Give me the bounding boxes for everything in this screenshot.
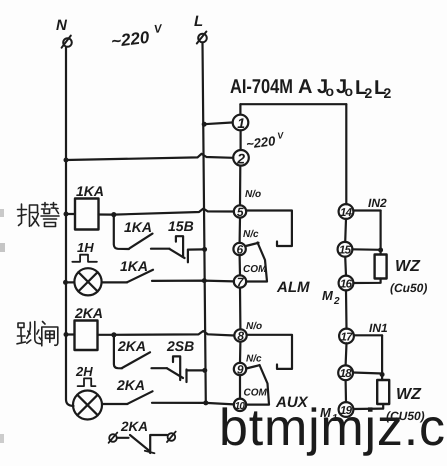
svg-text:N/c: N/c [243,229,259,240]
resistor WZ2 [377,380,389,404]
node N label [56,17,68,34]
wire coil1 to terminal 5 (hops L bus) [99,209,234,215]
lamp 2H pulse glyph [78,378,96,386]
wire L bus [203,43,206,403]
svg-text:15B: 15B [168,218,194,234]
wire N bus [66,48,74,407]
wire 18-19 [345,380,348,402]
wire 17 right [354,334,382,336]
terminal 19 [339,402,354,417]
wire 15 right [352,248,380,251]
terminal 15 [338,242,353,257]
label COM (10) [244,388,268,399]
junction dot lamp1 row at L bus [202,278,207,283]
wire 14 right [353,209,380,211]
floating contact blade [130,435,150,451]
label 2H [75,364,93,379]
pushbutton 2SB blade [167,368,183,378]
AUX NC tick from 9 [246,365,259,368]
label ALM [276,279,310,296]
svg-text:2H: 2H [75,364,93,379]
svg-text:N/o: N/o [245,189,261,200]
svg-text:1KA: 1KA [76,183,104,199]
svg-text:16: 16 [340,278,353,290]
wire contact to L bus and terminal 7 [152,280,234,283]
label IN2 [368,196,387,210]
svg-text:A: A [298,76,312,98]
label N/C (9) [246,354,262,365]
terminal 2 [233,150,249,166]
terminal 10 [234,399,246,411]
contact 2KA blade (lamp row) [128,391,153,404]
svg-text:WZ: WZ [395,258,421,275]
junction dot lamp2 row at L bus [203,400,208,405]
contact 1KA blade (lamp row) [127,270,153,283]
terminal 1 [233,115,249,131]
label 2KA coil [74,305,103,321]
junction dot seal-in branch 2 [111,332,116,337]
label WZ 1 [395,258,421,275]
svg-text:1KA: 1KA [124,219,152,235]
svg-text:1: 1 [237,115,245,131]
label 15B [168,218,194,234]
wire 14-15 [344,219,347,242]
resistor WZ1 [375,255,387,279]
label 报警 (alarm) [18,203,60,227]
junction dot N bus coil1 [64,212,69,217]
terminal 16 [339,276,354,291]
wire 1-2 [240,130,242,149]
svg-text:o: o [326,83,335,99]
svg-text:2: 2 [236,150,245,166]
node L label [194,13,203,30]
floating contact right terminal [167,432,176,442]
pushbutton 2SB cap and stem [173,356,180,380]
label M1 [320,405,338,424]
svg-text:o: o [345,83,354,99]
wire N to coil1 [66,213,75,215]
wire 2SB to L bus [187,369,204,371]
scan artifact marks [0,209,4,217]
junction dot seal-in 1 at L bus [202,247,207,252]
label AUX [275,394,309,411]
wire N to coil2 [66,333,75,335]
svg-text:18: 18 [340,368,353,380]
label WZ 2 [396,386,422,403]
wire 5-6 [239,218,242,243]
svg-text:1H: 1H [77,240,94,255]
svg-text:btmjmjz.c: btmjmjz.c [219,399,446,457]
label 1KA contact (lamp row) [120,258,148,274]
label N/O (8) [246,321,262,332]
wire lamp2 to contact [102,403,128,405]
wire to 15B [151,248,170,250]
svg-text:V: V [277,130,285,141]
label IN1 [369,321,388,335]
wire drop to WZ1 [380,211,382,255]
wire top rail [240,103,346,105]
wire lamp1 to contact [102,281,127,283]
contact 2KA blade (seal-in) [122,352,150,368]
pushbutton 15B cap and stem [176,236,183,256]
svg-text:~220: ~220 [245,133,277,152]
terminal 17 [339,329,354,344]
svg-text:N/o: N/o [246,321,262,332]
svg-text:1KA: 1KA [120,258,148,274]
label 1KA coil [76,183,104,199]
label AI-704M title [230,76,392,101]
label 1KA contact (seal-in) [124,219,152,235]
wire 9-10 [239,375,241,398]
terminal 7 [234,275,246,287]
floating contact left wire [117,437,129,439]
svg-text:2SB: 2SB [166,338,194,354]
junction dot seal-in branch 1 [111,212,116,217]
contact 1KA blade (seal-in) [130,234,153,249]
lamp 2H [73,391,102,420]
floating contact tick [145,451,155,453]
label 跳闸 (trip) [17,322,58,346]
junction dot WZ1 top [378,248,383,253]
pushbutton 15B blade [170,249,185,258]
svg-text:COM: COM [243,264,267,275]
node N terminal symbol [62,36,72,48]
label 2KA contact (lamp row) [116,377,145,393]
junction dot on L bus at terminal1 wire [202,122,207,127]
wire coil2 to terminal 8 (hops L bus) [98,331,235,336]
label COM (7) [243,264,267,275]
wire N bus to terminal 2 (hops L bus) [66,154,233,160]
svg-text:~220: ~220 [110,28,151,52]
svg-text:15: 15 [339,245,352,257]
label 2SB [166,338,194,354]
junction dot on N bus row2 [64,158,69,163]
svg-text:IN2: IN2 [368,196,387,210]
svg-text:(Cu50): (Cu50) [390,281,427,295]
label 1H [77,240,94,255]
terminal 5 [234,205,246,217]
wire 2-5 [239,166,242,206]
svg-text:2KA: 2KA [74,305,103,321]
svg-text:M: M [322,288,334,303]
label ~220V inner [245,130,286,152]
seal-in 2 drop wire [114,335,122,369]
terminal 18 [338,365,353,380]
ALM bracket 5 to NC stop [246,211,292,247]
wire contact to L bus and terminal 10 [152,403,234,405]
junction dot N bus coil2 [64,332,69,337]
floating contact right L wire [150,435,167,453]
svg-text:14: 14 [340,207,353,219]
junction dot N bus lamp1 [63,280,68,285]
terminal 8 [234,329,246,341]
pushbutton 2SB fixed tick [185,370,187,383]
wire 8-9 [239,342,242,363]
AUX movable blade from 10 [246,365,269,405]
label 2KA contact (seal-in) [117,338,146,354]
relay coil 2KA [75,321,98,351]
svg-text:2: 2 [333,296,340,307]
svg-text:IN1: IN1 [369,321,388,335]
svg-text:V: V [153,23,163,36]
terminal 9 [234,363,246,375]
AUX bracket 8 to NC stop [247,335,292,369]
svg-text:2: 2 [365,85,373,101]
svg-text:L: L [194,13,203,30]
node L terminal symbol [197,32,207,44]
svg-text:N: N [56,17,68,34]
wire L bus to terminal 1 [204,123,232,125]
wire 7-8 [239,288,242,330]
lamp 1H pulse glyph [72,255,97,262]
wire 15B to L bus [188,248,204,250]
seal-in 1 drop wire [114,215,129,249]
svg-text:2KA: 2KA [120,419,148,434]
wire 6-7 [239,255,242,275]
svg-text:COM: COM [244,388,268,399]
wire to 2SB [152,367,168,369]
label (CU50) [386,409,425,423]
svg-text:2KA: 2KA [117,338,146,354]
svg-text:2KA: 2KA [116,377,145,393]
wire WZ2 bottom to 19 [353,404,383,409]
floating contact left terminal [109,433,118,443]
junction dot WZ2 top [380,372,385,377]
svg-text:17: 17 [341,331,354,343]
wire N to lamp1 [66,281,74,283]
wire 18 right [353,373,382,374]
wire 17-18 [345,343,348,365]
wire right column drop to 14 [345,104,347,204]
wire drop to WZ2 [381,335,383,380]
label N/C (6) [243,229,259,240]
junction dot seal-in 2 at L bus [202,368,207,373]
svg-text:N/c: N/c [246,354,262,365]
svg-text:2: 2 [384,85,392,101]
wire 15-16 [344,257,347,276]
ALM movable blade from 7 [246,243,267,282]
terminal 14 [339,204,354,219]
wire 16-17 [345,290,348,328]
svg-text:ALM: ALM [276,279,310,296]
relay coil 1KA [75,199,99,230]
ALM NC tick from 6 [246,243,259,246]
wire terminal1 to top rail [239,104,241,114]
lamp 1H [74,268,101,295]
label 2KA floating contact [120,419,148,434]
svg-text:AI-704M: AI-704M [230,76,293,98]
wire WZ1 bottom to 16 [353,279,380,284]
pushbutton 15B fixed tick [187,250,189,262]
label M2 [322,288,340,307]
terminal 6 [233,243,245,255]
watermark btmjmjz.c [219,399,446,457]
label ~220V top [110,23,165,51]
label N/O (5) [245,189,261,200]
label (Cu50) [390,281,427,295]
